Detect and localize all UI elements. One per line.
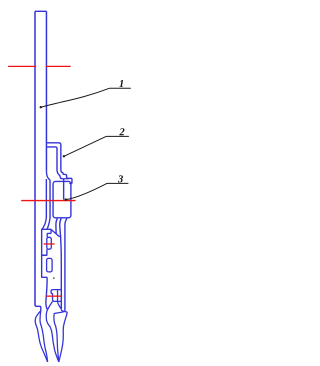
needle shank 1 : top cap <box>35 10 46 12</box>
stem left S-wall from butt bottom <box>56 219 58 234</box>
clip 2 : outer wall with staircase jog <box>46 143 71 184</box>
needle shank 1 : left edge <box>34 11 36 305</box>
slider blade flare and right edge <box>59 310 67 362</box>
stem mid wall from butt bottom down <box>60 219 62 310</box>
cheek box <box>51 290 61 302</box>
slot window <box>47 258 53 272</box>
leader line 3 <box>65 183 129 200</box>
needle shank 1 : right edge <box>45 11 47 172</box>
shank right edge S-curve into groove wall B <box>46 172 50 230</box>
slider butt 3 : rounded body <box>53 181 71 217</box>
label 1 <box>119 80 123 87</box>
groove wall A with left jog, lower channel and tail <box>42 179 48 309</box>
pivot axis red tick <box>44 243 55 245</box>
hook outer edge <box>35 311 47 362</box>
leader line 1 <box>40 88 131 108</box>
upper red centerline, right segment <box>46 65 71 67</box>
cheek lower tail <box>58 302 62 309</box>
slider blade left edge <box>54 312 64 362</box>
ink dot <box>53 277 55 279</box>
clip 2 : inner wall with jog and internal line to pivot <box>46 147 63 200</box>
cheek box divider <box>57 290 59 302</box>
label 3 <box>118 175 123 182</box>
stem right wall from butt bottom down <box>65 219 67 312</box>
ledge horizontal and chamfer to stem <box>42 229 60 237</box>
latch spoon edge <box>46 302 58 362</box>
upper red centerline, left segment <box>8 65 36 67</box>
latch pivot capsule <box>47 237 52 249</box>
foot of shank <box>35 305 41 311</box>
ledge step down to pivot capsule <box>47 230 51 237</box>
step under capsule <box>42 249 47 255</box>
lower axis red tick <box>46 295 61 297</box>
hook inner edge <box>40 311 48 362</box>
leader line 2 <box>63 136 129 157</box>
label 2 <box>119 128 124 135</box>
jog lower horizontal <box>64 178 70 180</box>
mid red axis line <box>21 200 75 202</box>
